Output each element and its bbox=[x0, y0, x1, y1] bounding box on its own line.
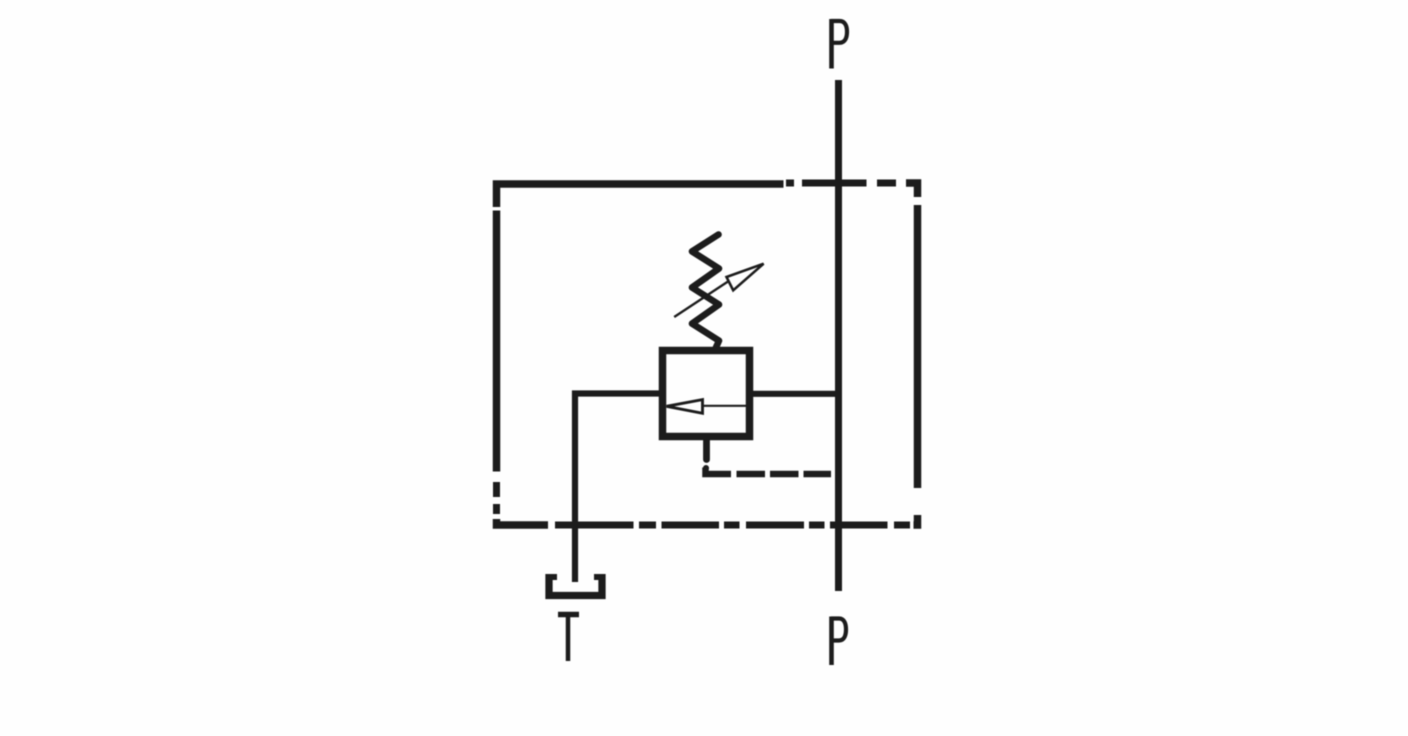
wire: valve left port to tank drop bbox=[575, 394, 659, 583]
pilot dashed line to P bbox=[706, 468, 832, 475]
valve internal arrow shaft bbox=[703, 405, 747, 407]
enclosure bottom edge (chain line) bbox=[555, 522, 910, 529]
enclosure right edge (chain line) bbox=[914, 205, 918, 525]
wire P line vertical bbox=[835, 80, 842, 591]
adjustment arrow head bbox=[727, 264, 764, 291]
adjustment arrow shaft bbox=[674, 282, 728, 318]
enclosure top edge (chain line) bbox=[497, 183, 918, 207]
label T bbox=[558, 615, 579, 662]
spring (adjustable) bbox=[692, 235, 719, 348]
label P (bottom) bbox=[831, 617, 846, 666]
valve U1 body square bbox=[663, 351, 750, 437]
pilot stub below valve bbox=[703, 440, 710, 460]
pilot stub dot bbox=[703, 465, 709, 471]
enclosure left edge (chain line) bbox=[497, 211, 549, 526]
tank symbol bbox=[546, 574, 606, 596]
label P (top) bbox=[831, 19, 847, 69]
valve internal arrow head (open) bbox=[667, 400, 703, 414]
wire: valve right port to P line bbox=[753, 391, 842, 397]
